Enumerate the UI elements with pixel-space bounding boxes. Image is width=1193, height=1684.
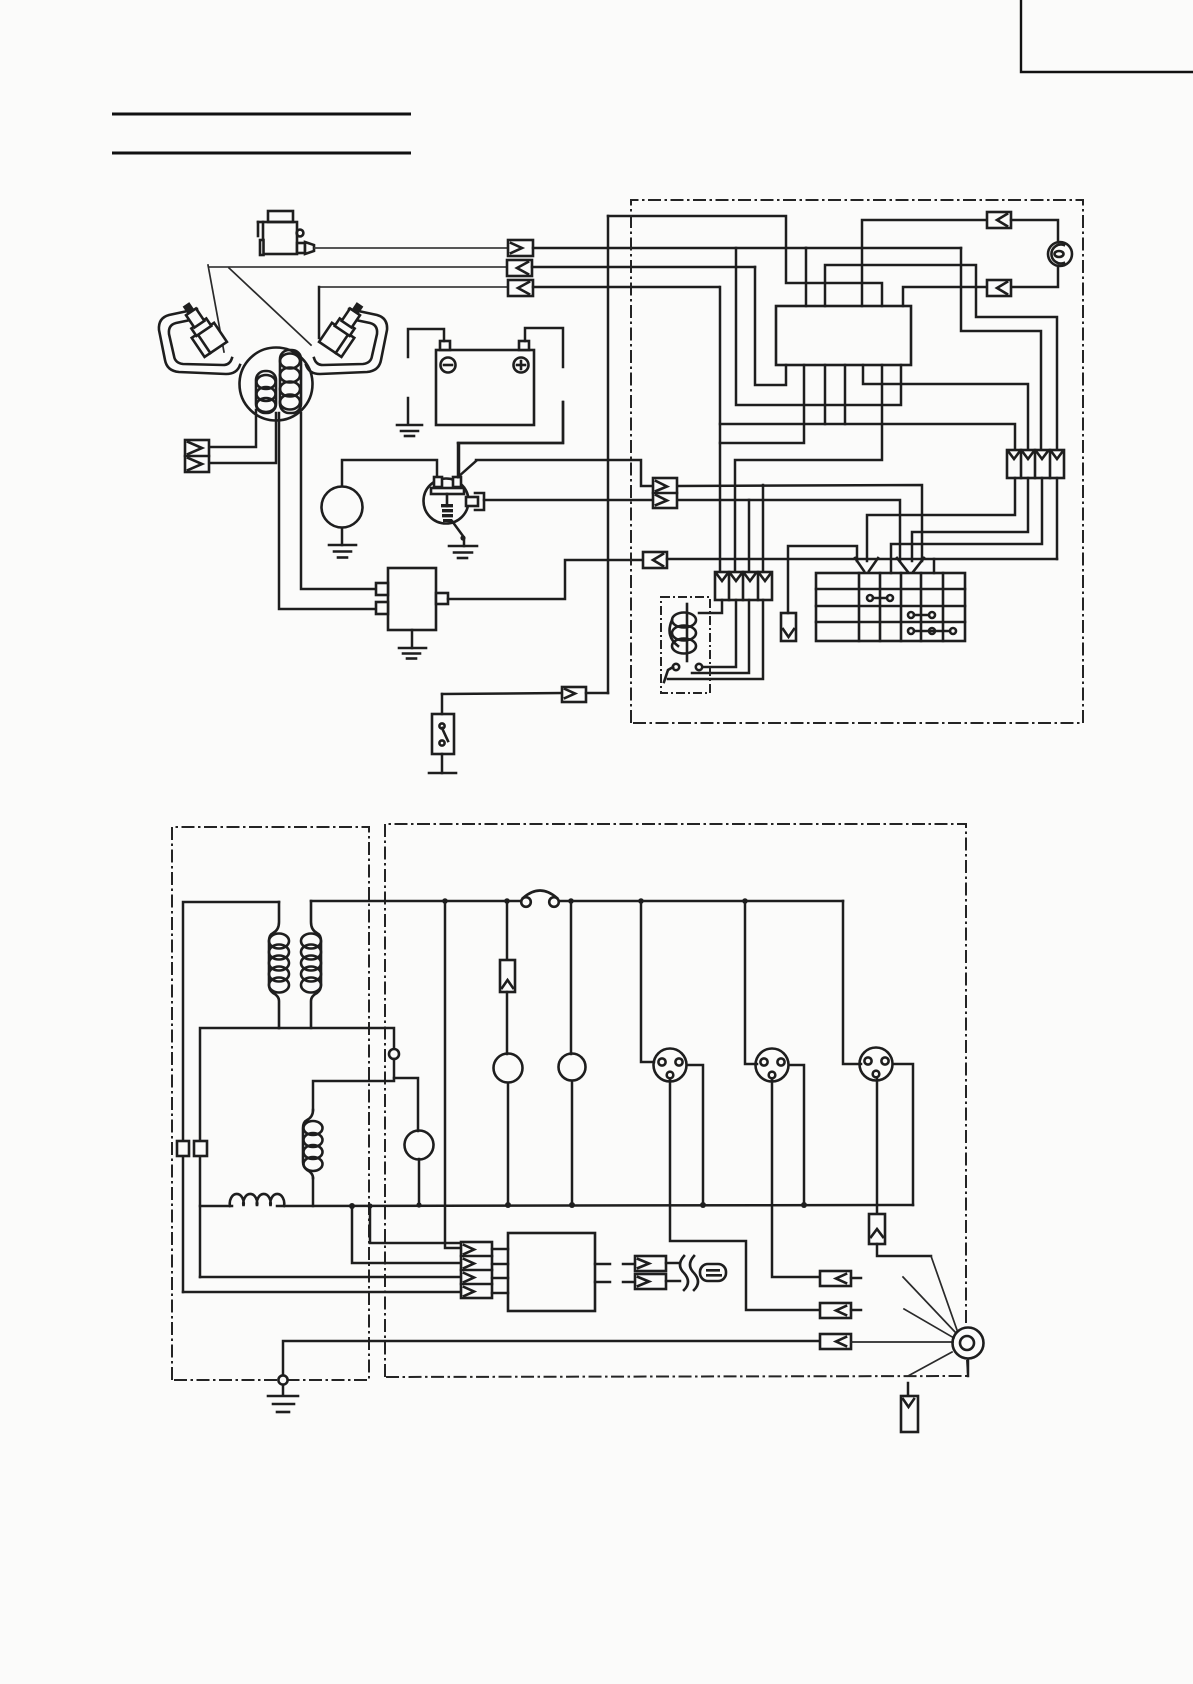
battery plus symbol bbox=[514, 358, 529, 373]
wire: strip pin4 feed bbox=[183, 1291, 461, 1294]
wire: double connector cell2 run to grid arrow2 bbox=[677, 500, 900, 561]
junction dot bus x703 bbox=[700, 1202, 706, 1208]
wire: connector to CDI area (y=248 bus) bbox=[533, 247, 806, 250]
regulator unit bbox=[376, 568, 448, 630]
magneto exciter coil 2 bbox=[280, 350, 301, 413]
wire: long drop L1 to strip pin1 bbox=[445, 901, 461, 1248]
panel enclosure right-bottom corner bbox=[385, 1360, 968, 1377]
spoke: to terminal lug 1 bbox=[931, 1256, 957, 1330]
connector strip (4 bullet) bbox=[461, 1242, 492, 1298]
wire: magneto coil1 to connector cell1 bbox=[210, 410, 256, 447]
wire: magneto to regulator upper pin bbox=[301, 413, 375, 589]
wire: bank2 cell3 riser from y=500 bbox=[748, 500, 751, 572]
wire: vertical connector to grid arrow1 bbox=[788, 546, 857, 613]
junction dot bus x574 bbox=[569, 1202, 575, 1208]
wire: plus bracket lower segment to sensor riser bbox=[459, 402, 563, 477]
wire: winding top left to fuse-link drop bbox=[183, 902, 279, 1292]
receptacle socket 3 bbox=[860, 1048, 893, 1081]
wire: block bottom pin a to bank2 cell1 riser bbox=[719, 287, 722, 572]
title underline 1 bbox=[112, 113, 411, 116]
engine stop switch bbox=[429, 694, 456, 773]
connector (bullet female) pilot lamp upper bbox=[987, 212, 1011, 228]
connector (vertical bullet) socket3 bbox=[869, 1214, 885, 1244]
double connector (2 bullet) mid bbox=[653, 478, 677, 508]
spoke: terminal to B line bbox=[904, 1309, 954, 1338]
wire: pack pin1 down-left to grid arrow1 bbox=[867, 478, 1015, 561]
wire: bank2 pin4 to relay arm bbox=[668, 600, 763, 679]
wire: pack pin2 down-left to grid arrow2 bbox=[912, 478, 1028, 561]
wire: strip pin3 feed bbox=[200, 1276, 461, 1279]
fuse link square on drop 2 bbox=[194, 1141, 207, 1156]
wire: meter2 to bus bbox=[571, 1081, 574, 1205]
terminal node circle bbox=[389, 1049, 399, 1059]
wire: socket1 earth pin zigzag to connector B bbox=[670, 1079, 820, 1310]
ignition coil HT terminal bbox=[297, 242, 314, 254]
junction dot bus x804 bbox=[801, 1202, 807, 1208]
wire: line y=287 from corner x=319 bbox=[319, 286, 508, 288]
battery BT1 bbox=[436, 341, 534, 425]
wire: tap into switch grid bbox=[933, 559, 936, 573]
wire: sub coil bottom lead bbox=[312, 1178, 315, 1206]
spark plug cap left with plug bbox=[159, 297, 240, 374]
wire: bus from choke to panel bbox=[277, 1205, 913, 1206]
ground below regulator bbox=[399, 630, 426, 659]
flywheel magneto circle bbox=[240, 348, 313, 421]
starter relay box (dashed) bbox=[661, 597, 710, 693]
fuse link square on drop 1 bbox=[177, 1141, 189, 1156]
main winding left coil bbox=[269, 902, 289, 1028]
wire: lamp to oil sensor bus bbox=[342, 460, 437, 486]
voltmeter circle bbox=[494, 1054, 523, 1083]
connector (bullet female) A bbox=[820, 1271, 851, 1286]
meter2 circle bbox=[559, 1054, 586, 1081]
resistor pack (4 element) top right bbox=[1007, 450, 1064, 478]
connector (bullet female) middle line bbox=[507, 260, 532, 276]
wires: strip to control unit bbox=[492, 1249, 508, 1293]
grid arrow 2 bbox=[897, 558, 924, 572]
connector (bullet female) pilot lamp lower bbox=[987, 280, 1011, 296]
junction dot L1 x507 bbox=[504, 898, 510, 904]
connector (bullet male) switch line bbox=[562, 687, 586, 702]
ignition coil side lug bbox=[297, 230, 304, 237]
wire: engine stop switch line bbox=[442, 693, 562, 694]
wire: connector A tail bbox=[851, 1277, 861, 1280]
junction dot bus x419 bbox=[416, 1202, 421, 1207]
wire: coil HT output to connector bbox=[314, 247, 508, 249]
wire: coil primary line y=267 bbox=[208, 266, 507, 268]
wire: bank2 pin1 to relay coil bbox=[699, 600, 722, 613]
wire: connector B tail bbox=[851, 1309, 861, 1312]
wire: block bottom pin 901 loop from y=248 line bbox=[736, 248, 901, 405]
wire: socket2 return to bus bbox=[789, 1065, 804, 1205]
pilot lamp panel bbox=[405, 1131, 434, 1160]
wires out of pair connectors bbox=[666, 1263, 680, 1281]
CDI / control block bbox=[776, 306, 911, 365]
wire: magneto to connector cell2 bbox=[210, 413, 276, 463]
wire: leads into pair connectors bbox=[623, 1264, 635, 1282]
wire: pack pin4 down to y=559 bus bbox=[1056, 478, 1059, 559]
generator bottom bus with choke bbox=[200, 1205, 232, 1208]
wire: block top pin2 riser and y=265 run bbox=[825, 265, 1057, 450]
connector (bullet female) regulator line bbox=[643, 552, 667, 568]
wire: unit output 1 bbox=[595, 1263, 610, 1266]
choke coil bbox=[230, 1194, 285, 1206]
wire: magneto to regulator lower pin bbox=[279, 413, 375, 609]
wire: bank2 pin2 to relay contact bbox=[703, 600, 736, 667]
wire: y=424 run line3 to resistor pack bbox=[720, 424, 1015, 450]
wire: y=216 run to CDI top pin bbox=[608, 216, 882, 306]
junction dot L1 x745 bbox=[742, 898, 748, 904]
wire: accessory bus y=460 to connector bbox=[476, 460, 653, 486]
junction dot L1 x641 bbox=[638, 898, 644, 904]
terminal grommet lug bbox=[953, 1328, 984, 1359]
wire: main vertical harness line bbox=[607, 216, 610, 693]
wire: y=248 bus continuation to right bbox=[806, 247, 961, 250]
wire: winding bottom rail bbox=[200, 1028, 279, 1277]
wire: L1 after fuse bbox=[559, 900, 843, 903]
output line L1 bbox=[311, 900, 521, 903]
wire: third line to corner x=719 bbox=[533, 286, 719, 289]
relay coil bbox=[670, 604, 696, 661]
generator enclosure (dash-dot) bbox=[172, 827, 369, 1380]
connector (bullet male) pair upper bbox=[635, 1256, 666, 1271]
wire: resistor to voltmeter bbox=[506, 992, 509, 1054]
leader line to right spark plug cap bbox=[229, 268, 311, 345]
receptacle socket 2 bbox=[756, 1049, 789, 1082]
wire: y=248 corner run to resistor pack bbox=[961, 248, 1041, 450]
wire: sensor float to y=500 line bbox=[484, 499, 653, 502]
grid arrow 1 bbox=[855, 558, 878, 571]
wire: pack pin3 down-left to grid bbox=[891, 478, 1042, 573]
ground battery minus bbox=[397, 425, 422, 436]
connector (vertical bullet) near grid bbox=[781, 613, 796, 641]
wire: drop from y=287 to right plug cap bbox=[318, 287, 321, 338]
wire: terminal branch to sub coil bbox=[313, 1078, 394, 1110]
wire: unit output 2 bbox=[595, 1281, 610, 1284]
wire: double connector cell1 run to grid arrow2 bbox=[677, 485, 922, 561]
spoke: terminal to A line bbox=[903, 1277, 956, 1333]
wire: winding rail to panel terminal bbox=[279, 1028, 394, 1049]
wire: connector to main vertical bbox=[586, 692, 608, 695]
spoke: terminal to bottom connector bbox=[908, 1352, 952, 1376]
wire: socket3 earth pin to vertical connector bbox=[876, 1078, 879, 1214]
wire: bank2 pin3 to relay bbox=[692, 600, 749, 673]
wire: battery plus bracket bbox=[525, 328, 563, 367]
oil warning lamp bbox=[322, 487, 363, 528]
wire: pilot lamp bottom to lower connector bbox=[1013, 266, 1058, 287]
wire: block bottom pin 825 drop bbox=[824, 365, 827, 424]
wire: battery minus bracket to ground bbox=[408, 329, 444, 424]
resistor bank 2 (4 element) bbox=[715, 572, 772, 600]
wire: meter2 branch bbox=[570, 901, 573, 1054]
wire: block bottom pin 804 drop to y=443 bbox=[720, 365, 804, 443]
main winding right coil bbox=[301, 901, 321, 1028]
magneto exciter coil 1 bbox=[256, 371, 276, 413]
generator sub coil bbox=[303, 1110, 323, 1178]
ground below oil sensor bbox=[449, 546, 477, 558]
wire: bus drop to strip pin1 bbox=[370, 1206, 461, 1243]
wire: bus drop to strip pin2 bbox=[352, 1206, 461, 1263]
wire: socket3 return to bus bbox=[893, 1064, 913, 1205]
wire: sensor post2 riser bbox=[457, 443, 460, 477]
control box enclosure (dash-dot) bbox=[631, 200, 1083, 723]
battery minus symbol bbox=[441, 358, 456, 373]
wire: battery plus to sensor post2 bbox=[458, 402, 563, 443]
spark plug cap right with plug bbox=[306, 297, 387, 374]
wire: bank2 cell4 riser from y=485 bbox=[762, 485, 765, 572]
wire: sensor bottom lead to ground bbox=[452, 521, 466, 546]
fuse on line L1 bbox=[521, 891, 559, 907]
wire: block bottom pin 786 loop from y=267 line bbox=[755, 267, 786, 385]
relay contact points bbox=[664, 664, 702, 682]
frame ground symbol bbox=[268, 1385, 298, 1412]
wire: socket1 feed drop bbox=[641, 901, 654, 1062]
connector (bullet male) pair lower bbox=[635, 1274, 666, 1289]
grid contact row3 bbox=[908, 612, 935, 618]
wire: block bottom pin 845 drop bbox=[844, 365, 847, 424]
connector (bullet male) top line bbox=[508, 240, 533, 256]
receptacle socket 1 bbox=[654, 1049, 687, 1082]
wire: voltmeter to bus bbox=[507, 1083, 510, 1205]
magneto output connector (double bullet) bbox=[185, 440, 209, 472]
wire: connector to pilot lamp top bbox=[1011, 220, 1058, 242]
wire: block bottom pin 863 to resistor pack top bbox=[863, 365, 1028, 450]
wire: socket2 earth pin to connector A bbox=[772, 1079, 820, 1277]
pilot lamp assembly bbox=[1048, 242, 1072, 266]
connector (bullet female) B bbox=[820, 1303, 851, 1318]
wire: block bottom pin 882 to bank2 cell2 bbox=[735, 365, 882, 572]
oil sensor float contact right bbox=[466, 493, 484, 510]
resistor element on meter branch bbox=[500, 960, 515, 992]
wire: socket1 return to bus bbox=[687, 1065, 703, 1205]
wire: middle line to corner x=755 bbox=[532, 266, 755, 269]
wire: block top pin1 riser bbox=[805, 248, 808, 306]
junction dot bus/strip pin2 bbox=[349, 1203, 355, 1209]
grid contact row4 bbox=[908, 628, 956, 634]
cable squiggle marks bbox=[680, 1256, 698, 1290]
title underline 2 bbox=[112, 152, 411, 155]
control panel enclosure (dash-dot) bbox=[385, 824, 966, 1377]
wire: lamp drop to bus bbox=[418, 1159, 421, 1205]
wire: block top pin3 riser and y=220 run bbox=[862, 220, 987, 306]
wire: regulator output to connector bbox=[448, 560, 643, 599]
connector (bullet female) C bbox=[820, 1334, 851, 1349]
glow element / heater plug bbox=[700, 1264, 726, 1281]
wire: vertical connector to terminal lug bbox=[877, 1244, 931, 1256]
grid contact row2 bbox=[867, 595, 893, 601]
wire: diagonal tap post2 to accessory bus bbox=[458, 461, 476, 477]
connector (bullet female) third line bbox=[508, 280, 533, 296]
junction dot L1 x571 bbox=[568, 898, 574, 904]
earth wire from ground to connector C bbox=[283, 1341, 820, 1376]
ground below lamp bbox=[329, 528, 356, 558]
wire: terminal down and jog bbox=[394, 1059, 418, 1131]
junction dot L1 x445 bbox=[442, 898, 448, 904]
junction dot bus x509 bbox=[505, 1202, 511, 1208]
ignition coil T1 body bbox=[258, 211, 297, 255]
control unit box bbox=[508, 1233, 595, 1311]
junction dot bus 370 bbox=[367, 1203, 372, 1208]
combination switch grid bbox=[816, 573, 965, 641]
page corner frame top-right bbox=[1021, 0, 1193, 72]
wire: socket2 feed drop bbox=[745, 901, 757, 1064]
wire: long bus y=559 to resistor pack bbox=[667, 558, 1057, 561]
wire: block top pin5 riser to lamp connector bbox=[903, 287, 987, 306]
oil level sensor unit bbox=[424, 477, 469, 524]
frame ground circle bbox=[278, 1375, 287, 1384]
wire: socket3 feed drop bbox=[843, 901, 861, 1064]
wire: terminal to enclosure corner bbox=[967, 1359, 970, 1376]
connector (bullet) below enclosure bbox=[901, 1383, 918, 1432]
leader line to left spark plug cap bbox=[208, 265, 224, 352]
wire: connector C tail to terminal bbox=[851, 1341, 953, 1343]
wire: voltmeter branch upper bbox=[506, 901, 509, 960]
